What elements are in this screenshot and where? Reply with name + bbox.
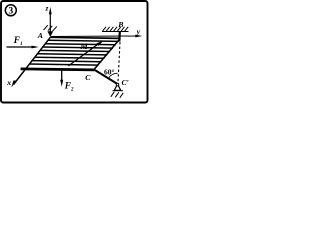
- 60 degree angle arc: [108, 73, 118, 78]
- rod C to C': [94, 70, 118, 85]
- svg-text:M: M: [79, 41, 88, 51]
- dashed vertical line from B corner to C': [118, 42, 120, 83]
- hatch line 7: [32, 61, 101, 62]
- y axis: [51, 35, 138, 38]
- z axis line: [49, 13, 51, 33]
- hatch line 1: [48, 40, 119, 41]
- wall at B with hatching: [102, 31, 129, 33]
- plate top edge: [50, 37, 120, 38]
- circled number 3: [5, 5, 16, 16]
- pin support at C': [114, 84, 120, 90]
- svg-text:C: C: [85, 73, 91, 82]
- plate right edge: [94, 38, 120, 69]
- x axis arrowhead: [11, 80, 16, 87]
- B support link: [118, 32, 121, 42]
- hatch line 2: [45, 44, 116, 45]
- svg-text:3: 3: [8, 7, 13, 17]
- left edge of plate continuing as x axis: [14, 37, 51, 84]
- svg-text:x: x: [6, 78, 11, 87]
- background: [0, 0, 150, 107]
- ground line at C': [113, 90, 124, 92]
- support arrow down to A: [47, 31, 53, 37]
- F2 force arrow: [61, 70, 63, 82]
- border frame: [1, 1, 148, 103]
- M moment arrow: [68, 43, 99, 66]
- support hatching at A: [44, 25, 57, 31]
- F1 force arrow: [7, 46, 36, 48]
- ground hatching at C': [111, 92, 124, 98]
- hatch line 6: [35, 57, 105, 58]
- hatch line 5: [37, 54, 107, 55]
- svg-text:60°: 60°: [104, 67, 115, 76]
- svg-text:z: z: [45, 3, 49, 12]
- svg-text:A: A: [37, 31, 43, 40]
- svg-text:C′: C′: [122, 78, 129, 87]
- svg-text:y: y: [136, 27, 141, 36]
- hatch line 8: [29, 64, 98, 65]
- plate bottom edge (bold): [21, 69, 95, 70]
- hatch line 3: [43, 47, 113, 48]
- hatch line 4: [40, 50, 110, 51]
- plate (parallelogram) hatching: [21, 37, 121, 70]
- svg-text:B: B: [117, 20, 123, 29]
- z axis arrowhead up: [49, 7, 52, 14]
